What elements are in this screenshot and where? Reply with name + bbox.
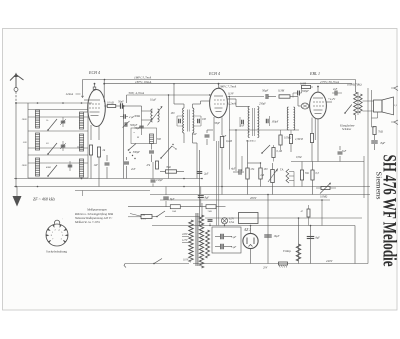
resistor R21 0.1M <box>272 148 275 158</box>
tube V3 EBL1 envelope <box>310 92 327 119</box>
svg-text:0,5M: 0,5M <box>296 156 302 159</box>
wire L7 left top <box>142 110 153 112</box>
coil L3 <box>35 158 39 176</box>
wire OT to speaker <box>363 100 374 102</box>
wire B+ riser <box>267 195 269 264</box>
coil L7 variable-core <box>151 109 153 122</box>
resistor R12 <box>311 170 314 180</box>
capacitor C22 5uF <box>220 244 222 250</box>
wire tuner row4 <box>28 177 88 179</box>
resistor R11 <box>300 170 303 180</box>
wire antenna down-lead <box>14 88 18 92</box>
resistor R14 60 ohm <box>141 215 152 219</box>
capacitor C20 8uF <box>163 196 169 198</box>
capacitor C17 500pF <box>297 91 299 96</box>
svg-text:1kΩ: 1kΩ <box>172 210 176 213</box>
resistor R23 <box>206 205 216 209</box>
IF T3 core <box>252 108 254 136</box>
wire rail A 186V <box>83 79 356 81</box>
tube V2 pin top <box>218 84 220 89</box>
svg-text:2nF: 2nF <box>131 168 136 171</box>
svg-text:1nF: 1nF <box>240 125 245 128</box>
svg-text:2000: 2000 <box>22 118 28 121</box>
heater box <box>239 213 259 224</box>
svg-text:300Ω: 300Ω <box>134 115 140 118</box>
svg-text:16μF: 16μF <box>274 235 280 238</box>
svg-text:Meßspannungen: Meßspannungen <box>86 208 107 212</box>
wire dropper x123.7 <box>123 106 125 179</box>
trimmer C2 <box>61 144 66 146</box>
wire dropper x322 <box>321 200 323 226</box>
capacitor C8 50pF <box>139 125 144 127</box>
IF transformer T3 primary <box>248 107 249 138</box>
svg-text:ECH 4: ECH 4 <box>88 70 100 75</box>
tube V1 pins left <box>84 99 88 101</box>
tube V1 pin top <box>94 84 96 87</box>
svg-text:12mA: 12mA <box>66 92 73 96</box>
wire riser 8uF <box>310 226 312 264</box>
rectifier tube V4 AZ1 <box>243 233 258 248</box>
phono jack TA lower <box>286 178 289 183</box>
svg-text:500pF: 500pF <box>133 151 141 154</box>
junction bus <box>183 178 185 180</box>
wire bus G <box>160 199 330 201</box>
svg-text:150: 150 <box>299 138 304 141</box>
capacitor C18 4nF <box>334 91 336 96</box>
wire tuner row1 <box>28 109 88 111</box>
coil L8 variable-core <box>158 109 160 122</box>
svg-text:0,1A: 0,1A <box>141 218 146 221</box>
wire avc vertical <box>228 97 230 170</box>
svg-text:TA: TA <box>280 169 284 172</box>
capacitor C25 8uF <box>371 140 378 142</box>
svg-text:1nF: 1nF <box>93 164 98 167</box>
AZ1 pin top <box>250 226 252 234</box>
capacitor C19 5nF <box>338 151 343 153</box>
power transformer T6 heater winding <box>206 230 210 258</box>
svg-text:ZF ~ 468 kHz: ZF ~ 468 kHz <box>33 197 55 202</box>
svg-text:10000(7)RΩ: 10000(7)RΩ <box>347 82 362 86</box>
wire field riser <box>298 218 300 264</box>
capacitor C29 8uF <box>198 195 204 197</box>
wire heater <box>209 223 211 226</box>
coil L5 <box>79 134 83 151</box>
resistor R4 300 <box>97 147 100 157</box>
IF transformer T3 secondary <box>258 107 259 138</box>
capacitor C13 150pF <box>124 161 129 163</box>
grid cap connector V3 <box>301 103 309 109</box>
wire jack bus <box>289 171 294 173</box>
capacitor C16 50pF <box>265 94 267 99</box>
output transformer T5 secondary <box>359 94 362 113</box>
svg-text:20V: 20V <box>263 267 268 270</box>
wire tuner row3 <box>28 154 88 156</box>
wire det out <box>227 96 264 98</box>
wire rail C 56V <box>127 94 210 96</box>
wire af riser <box>241 156 243 171</box>
switch S5 mains <box>128 216 141 218</box>
wire heater pair <box>216 141 218 226</box>
svg-text:50pF: 50pF <box>118 101 124 104</box>
svg-text:Klangfarben-: Klangfarben- <box>340 125 355 128</box>
capacitor C24 8uF <box>307 236 315 238</box>
switch S2 contacts <box>172 144 173 145</box>
wire T1 top <box>183 104 185 108</box>
svg-text:250pF: 250pF <box>259 103 266 106</box>
wire tuner top bus <box>16 102 92 104</box>
svg-text:EBL 1: EBL 1 <box>309 71 320 76</box>
capacitor C23 16uF <box>264 234 272 236</box>
wire V2 anode to T3 <box>235 99 237 107</box>
svg-text:+4,2V: +4,2V <box>328 98 335 101</box>
capacitor C21 5uF <box>220 234 222 240</box>
svg-text:220V: 220V <box>182 233 188 236</box>
tap 127V <box>182 242 189 244</box>
field coil Feldspule <box>296 244 300 261</box>
volume potentiometer R13 1M <box>271 170 275 183</box>
trimmer C1 <box>61 120 66 122</box>
capacitor C28 2uF <box>197 171 203 173</box>
capacitor C7 50pF <box>120 103 122 109</box>
wire V1 k <box>90 155 92 179</box>
ground earth symbol <box>16 187 18 197</box>
tube V1 top cap <box>93 87 96 89</box>
svg-text:Schalter: Schalter <box>342 128 351 131</box>
shield box <box>131 128 157 144</box>
capacitor C26 <box>208 219 213 221</box>
wire rail A left descent <box>82 80 84 98</box>
svg-text:AZ 1: AZ 1 <box>243 228 251 232</box>
resistor R24 1k <box>170 205 180 209</box>
wire rail A drop to V1 <box>104 79 106 81</box>
wire bus E chassis <box>14 186 370 188</box>
svg-text:74Ω: 74Ω <box>208 210 212 213</box>
coil L4 oscillator <box>79 112 83 129</box>
svg-text:4nF: 4nF <box>333 88 338 91</box>
resistor R15 on bus <box>279 262 288 265</box>
coil T4 demod secondary <box>294 107 295 130</box>
power transformer T6 HV secondary <box>199 215 203 268</box>
switch S1a wave-band <box>48 119 57 130</box>
svg-text:8μF: 8μF <box>205 197 210 200</box>
tube V1 ECH4 envelope <box>88 90 106 127</box>
tube V3 pin top <box>317 87 319 93</box>
mains plug hook <box>124 264 126 268</box>
wire mid vertical <box>168 95 170 179</box>
tap 220V <box>182 236 189 238</box>
trimmer C5 500pF <box>124 122 126 127</box>
wire speaker field drop <box>377 112 379 118</box>
resistor R9 0.3M grid <box>302 85 311 88</box>
svg-text:7kΩ: 7kΩ <box>166 166 171 169</box>
tube V1 pin anode <box>103 80 105 103</box>
resistor R3 0.2M <box>89 145 92 155</box>
capacitor C14 2nF <box>205 134 210 136</box>
svg-text:ECH 4: ECH 4 <box>208 71 220 76</box>
wire af <box>248 162 261 164</box>
svg-text:60Ω: 60Ω <box>141 214 145 217</box>
wire to grid <box>297 97 299 107</box>
svg-text:0,3MΩ: 0,3MΩ <box>320 196 327 199</box>
wire bottom power bus <box>193 263 368 265</box>
svg-text:8μF: 8μF <box>170 198 175 201</box>
tube V2 pin anode <box>227 98 236 100</box>
S7 contacts <box>129 152 130 153</box>
speaker terminal upper <box>394 86 398 91</box>
svg-text:50pF: 50pF <box>262 89 269 93</box>
resistor R17 25k <box>246 168 249 179</box>
bus dots <box>37 102 39 104</box>
wire tuner row3b <box>28 162 88 164</box>
wire mains <box>125 263 189 265</box>
svg-text:Feldsp.: Feldsp. <box>282 250 292 253</box>
resistor R7 2.7k <box>289 135 292 144</box>
phono jack TA mid <box>286 174 289 179</box>
wire tuner frame <box>27 103 29 178</box>
wire OT bottom <box>355 115 357 120</box>
wire tone bus <box>291 161 364 163</box>
resistor R10 150 cathode <box>310 134 313 143</box>
wire bus D <box>14 178 202 180</box>
output transformer T5 primary <box>354 92 358 115</box>
svg-text:500pF: 500pF <box>302 90 309 93</box>
switch S6 mains on-off <box>154 259 162 264</box>
wire row 206 <box>128 206 170 208</box>
capacitor C9b 100pF <box>197 119 199 124</box>
svg-text:150pF: 150pF <box>156 179 163 182</box>
svg-text:Siemens: Siemens <box>375 172 384 200</box>
IF T1 core <box>186 110 188 132</box>
L7 arrow <box>148 107 163 126</box>
IF transformer T1 primary <box>183 108 184 133</box>
switch S3 demod <box>262 145 270 153</box>
resistor R20 47 <box>307 209 310 217</box>
tube V3 pin right <box>326 101 332 103</box>
tube V3 pins bottom <box>317 119 319 162</box>
wire dropper x222 <box>221 187 223 195</box>
svg-text:0,1μF: 0,1μF <box>150 99 157 102</box>
wire osc down <box>192 140 194 143</box>
wire bus I <box>152 225 355 227</box>
resistor R18 100 <box>259 168 262 179</box>
resistor R8 0.3M <box>279 95 290 98</box>
capacitor C15a <box>241 120 243 125</box>
wire T1 down1 <box>183 133 185 143</box>
svg-text:0,1M: 0,1M <box>277 150 283 153</box>
svg-text:5nF: 5nF <box>222 135 227 138</box>
wire dropper x202 <box>201 203 203 218</box>
callout wire to resistor <box>130 214 141 217</box>
antenna <box>15 74 17 88</box>
capacitor C11 150pF <box>151 179 156 181</box>
tube V1 electrodes <box>89 99 100 101</box>
tube V2 ECH4 envelope <box>210 88 228 117</box>
wire speaker verticals <box>367 88 369 264</box>
capacitor C10 500pF padder <box>149 150 154 152</box>
svg-text:8μF: 8μF <box>316 237 321 240</box>
svg-text:0,3M: 0,3M <box>300 83 306 86</box>
power transformer T6 primary <box>189 220 193 262</box>
resistor R1 10k <box>107 105 116 108</box>
svg-text:4000: 4000 <box>46 166 52 169</box>
wire tuner row1b <box>28 116 88 118</box>
tube V1 pins bottom <box>90 125 92 140</box>
switch S1b wave-band <box>48 143 57 154</box>
svg-text:2nF: 2nF <box>192 133 197 136</box>
wire to IF1 <box>126 105 142 107</box>
wire T1 sec top <box>192 104 194 108</box>
wire anode to OT <box>355 80 357 93</box>
speaker terminal lower <box>394 120 398 125</box>
switch S7 <box>129 144 137 151</box>
svg-text:5nF: 5nF <box>342 150 347 153</box>
svg-text:10 kΩ: 10 kΩ <box>107 101 114 104</box>
phono jack TA upper <box>286 169 289 174</box>
svg-text:50pF: 50pF <box>215 122 221 125</box>
svg-text:8μF: 8μF <box>381 141 386 145</box>
IF transformer T1 secondary <box>193 108 194 133</box>
wire T1 down2 <box>192 133 194 140</box>
wire L7 left bot <box>142 119 153 121</box>
coil L9 padding <box>150 134 154 144</box>
tone pot R19 <box>321 186 330 189</box>
wire tuner row2 <box>28 130 88 132</box>
svg-text:Meßwerte ca. ± 20%: Meßwerte ca. ± 20% <box>74 220 100 224</box>
wire det vertical <box>235 130 237 171</box>
tube socket bottom view <box>46 224 68 246</box>
socket key <box>54 220 59 224</box>
capacitor C9 100pF <box>178 119 180 124</box>
coil T4 demod primary <box>287 107 288 130</box>
resistor R2 <box>156 161 159 169</box>
switch S2 <box>161 146 172 158</box>
resistor R16 7k <box>373 127 376 135</box>
OT core <box>357 92 359 115</box>
svg-text:110V: 110V <box>183 259 189 262</box>
svg-text:5 μF: 5 μF <box>231 246 237 249</box>
svg-text:2000: 2000 <box>22 164 28 167</box>
wire HT vertical <box>199 150 201 226</box>
tube V2 electrodes <box>214 95 223 97</box>
coil L2 <box>35 133 39 150</box>
wire left rail <box>15 103 17 187</box>
capacitor C12 1nF <box>105 162 110 164</box>
svg-text:7kΩ: 7kΩ <box>378 130 383 134</box>
capacitor C4 2uF <box>123 114 125 119</box>
resistor R22 0.5M <box>279 135 282 145</box>
svg-text:0,5MΩ: 0,5MΩ <box>284 137 291 140</box>
tube V2 pin grid <box>209 94 210 95</box>
resistor R5 7k <box>166 170 177 173</box>
svg-text:127V: 127V <box>182 239 188 242</box>
svg-text:2μF: 2μF <box>204 173 209 176</box>
tube V2 pins bottom <box>213 117 215 141</box>
loudspeaker LS1 <box>374 100 383 112</box>
dial lamp LP1 <box>221 218 227 224</box>
capacitor C27 4uF <box>238 169 240 175</box>
coil L1 antenna <box>35 110 39 128</box>
wire tuner row2b <box>28 147 88 149</box>
svg-text:0,2M: 0,2M <box>77 146 83 149</box>
T6 core <box>195 213 197 266</box>
tube V3 electrodes <box>313 97 323 99</box>
capacitor C3 <box>68 164 73 166</box>
svg-text:0,3A: 0,3A <box>229 221 234 224</box>
note line callout <box>75 190 150 192</box>
coil L6 <box>79 159 83 177</box>
wire <box>374 144 376 150</box>
switch S1c wave-band <box>48 165 57 176</box>
wire rail B 187V <box>104 83 352 85</box>
resistor R6 cathode <box>220 137 223 148</box>
switch S4 tone <box>345 105 352 114</box>
wire <box>374 135 376 141</box>
wire avc horizontal <box>229 129 299 131</box>
wire enclosure vertical <box>363 156 365 198</box>
wire dropper x184 <box>183 186 185 188</box>
filter capacitor box <box>212 227 241 253</box>
svg-text:5 μF: 5 μF <box>231 236 237 239</box>
wire right box vertical <box>354 226 356 264</box>
wire bus H <box>205 217 362 219</box>
AZ1 pin bottom <box>250 249 252 264</box>
svg-text:Sockelschaltung: Sockelschaltung <box>46 250 67 254</box>
wire bus F <box>150 194 370 196</box>
svg-text:4μF: 4μF <box>231 168 236 171</box>
capacitor C15 100pF <box>265 119 267 124</box>
svg-text:50pF: 50pF <box>135 127 141 130</box>
wire grid to tube <box>309 105 310 107</box>
svg-text:100pF: 100pF <box>272 121 279 124</box>
